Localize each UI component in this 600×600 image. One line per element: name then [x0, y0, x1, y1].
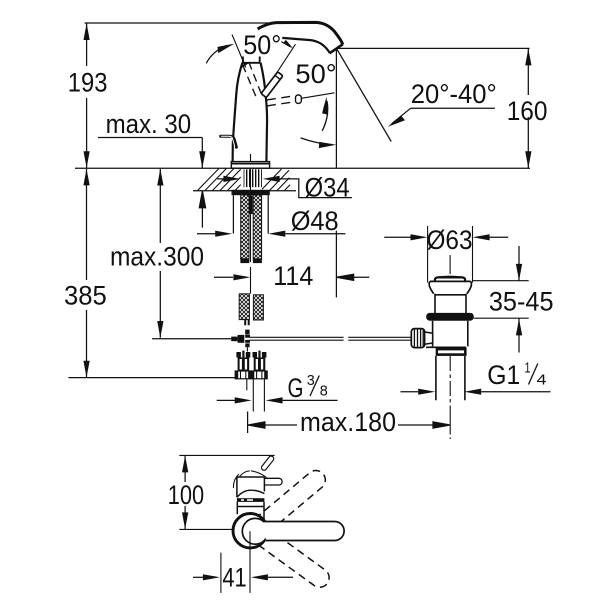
- svg-text:8: 8: [320, 383, 328, 400]
- dim max30 arrow down: [199, 151, 205, 168]
- svg-text:50°: 50°: [295, 59, 336, 89]
- dim 193 arrow bottom: [84, 151, 90, 168]
- neck top: [242, 57, 260, 64]
- dashed handle horizontal position: [267, 96, 296, 106]
- svg-text:35-45: 35-45: [489, 287, 554, 317]
- top view: hub circle: [242, 518, 268, 544]
- fitting left: [235, 351, 251, 379]
- dim max180 ext line: [247, 412, 249, 434]
- tee connector center piece: [245, 335, 250, 343]
- svg-text:41: 41: [222, 562, 246, 592]
- dim 160 arrow top: [525, 49, 531, 66]
- 50deg leader arrowhead: [282, 39, 294, 48]
- dim 160 arrow bottom: [525, 151, 531, 168]
- dim O48 arrows + leader: [197, 233, 215, 235]
- drain pop-up cap: [435, 277, 465, 281]
- top view: body below band: [237, 502, 264, 521]
- drain seal ring: [426, 313, 474, 321]
- drain upper body: [434, 294, 466, 313]
- tee connector stub down: [245, 343, 249, 347]
- left hose end line: [246, 379, 248, 391]
- hose right upper segment: [253, 195, 261, 259]
- deck bottom line: [193, 190, 296, 192]
- dim 41 arrows: [193, 576, 203, 578]
- dim max30 arrow up below deck: [199, 191, 205, 228]
- handle horizontal thin line: [301, 93, 334, 99]
- water stream diagonal: [337, 49, 392, 142]
- top view: dark band: [237, 498, 265, 502]
- top view: dim 100 ext top: [179, 454, 274, 456]
- svg-text:114: 114: [273, 261, 313, 291]
- dim G3/8 arrows: [217, 399, 235, 401]
- top view: dashed lever up: [255, 467, 329, 534]
- handle tilted ref line: [232, 35, 246, 68]
- spout outline top: [258, 22, 343, 44]
- dim 100 arrow top: [182, 456, 188, 473]
- fitting right: [251, 351, 267, 379]
- deck hatching: [198, 168, 291, 190]
- svg-text:193: 193: [68, 68, 108, 98]
- dim 385 vertical line: [86, 169, 88, 377]
- handle lever raised: [261, 72, 283, 98]
- top view: dim 100 ext bottom: [179, 528, 233, 530]
- dim max180 line + arrows: [248, 422, 297, 428]
- mounting cylinder edges: [233, 195, 268, 233]
- dim 193 vertical line: [86, 23, 88, 168]
- dim 35-45 line + arrows: [518, 246, 520, 281]
- tee connector left nipple: [231, 337, 237, 342]
- top view: side knob right: [264, 478, 282, 485]
- hose left upper segment: [241, 195, 249, 259]
- pull rod between hoses: [249, 196, 253, 215]
- faucet body right side: [261, 63, 267, 162]
- hose right lower segment: [253, 295, 263, 320]
- dim 385 arrow bottom: [83, 361, 89, 378]
- spout underside: [282, 38, 329, 53]
- svg-text:50°: 50°: [243, 30, 281, 60]
- dim max30 drop line: [201, 138, 203, 169]
- fraction slash G3/8: [310, 376, 319, 397]
- svg-text:max.180: max.180: [300, 407, 396, 437]
- faucet body left side: [233, 63, 243, 162]
- dim max30 leader underline: [98, 137, 202, 139]
- drain nut flange: [426, 346, 466, 348]
- top view: rosette circle: [233, 514, 267, 548]
- right connection tube G3/8: [253, 379, 264, 412]
- tee connector body: [238, 335, 245, 343]
- top view: spout tip oval: [260, 455, 274, 471]
- top view: wave band: [237, 490, 265, 497]
- drain lower body: [433, 321, 468, 347]
- svg-text:1: 1: [525, 359, 531, 376]
- dim max300 vertical line: [159, 169, 161, 338]
- svg-text:Ø34: Ø34: [305, 172, 350, 202]
- tailpipe centerline: [449, 356, 451, 439]
- dim 100 arrow bottom: [182, 512, 188, 529]
- pop-up rod line left: [152, 338, 231, 340]
- dim O63 ext lines: [428, 226, 473, 283]
- base flange: [231, 162, 269, 169]
- dim 35-45 ext lines: [473, 281, 529, 319]
- dim 114 line + arrows: [214, 276, 233, 278]
- dashed handle cap: [241, 63, 248, 67]
- dim 20-40 underline + leader arrow: [392, 108, 495, 124]
- top view: body box: [237, 477, 265, 497]
- dim max300 arrow top: [157, 169, 163, 186]
- handle horizontal cap: [296, 95, 302, 103]
- rod stub below left hose: [245, 320, 249, 326]
- svg-text:max.300: max.300: [110, 242, 204, 272]
- hose feet dark: [240, 258, 249, 263]
- svg-text:G1: G1: [487, 360, 520, 390]
- top view: sketch arcs: [233, 471, 266, 488]
- pull-rod lever on left: [221, 136, 237, 147]
- top view: dashed lever down: [256, 528, 333, 591]
- svg-text:max. 30: max. 30: [106, 109, 192, 139]
- 50deg arc arrow left: [206, 45, 227, 63]
- dim 41 ext line left: [220, 553, 222, 593]
- dim 100 vertical line: [184, 455, 186, 529]
- svg-text:385: 385: [64, 281, 107, 311]
- svg-text:160: 160: [507, 96, 548, 126]
- top view: centerline below: [249, 531, 251, 593]
- 50deg arc arrow up: [322, 101, 328, 131]
- spout outlet face: [330, 44, 343, 53]
- dim 160 vertical line: [527, 48, 529, 168]
- dim O63 arrows: [384, 236, 411, 238]
- mounting washer: [232, 190, 270, 195]
- svg-text:4: 4: [537, 371, 547, 388]
- svg-text:G: G: [288, 373, 304, 403]
- deck top line: [75, 167, 530, 169]
- dim 193 arrow top: [84, 23, 90, 40]
- faucet handle axis extension line: [265, 44, 296, 91]
- svg-text:Ø48: Ø48: [291, 206, 339, 236]
- knurled knob: [411, 329, 424, 348]
- 50deg leader from text: [281, 42, 290, 47]
- top reference line L1: [85, 22, 273, 24]
- svg-text:Ø63: Ø63: [427, 225, 473, 255]
- dim max300 arrow bottom: [157, 321, 163, 338]
- faucet centerline: [250, 154, 252, 294]
- drain centerline top: [449, 255, 451, 274]
- 20-40 arc arrow right: [301, 138, 332, 145]
- ext line 385 bottom: [68, 377, 235, 379]
- knob connector: [425, 332, 433, 344]
- dim 385 arrow top: [83, 169, 89, 186]
- dim O34 arrows + leader: [217, 178, 224, 180]
- tee connector stub up: [245, 330, 249, 335]
- dashed handle vertical position: [243, 62, 263, 100]
- fraction slash G1 1/4: [529, 364, 538, 385]
- hose left lower segment: [239, 294, 249, 320]
- svg-text:20°-40°: 20°-40°: [411, 79, 497, 109]
- projection line from spout outlet: [335, 49, 337, 297]
- drain rim: [430, 280, 471, 282]
- dim G1 1/4 arrows: [401, 391, 419, 393]
- shank thread in deck hole: [244, 169, 262, 187]
- pop-up rod double line to drain: [250, 337, 411, 340]
- svg-text:100: 100: [168, 480, 204, 510]
- drain tailpipe: [436, 356, 465, 400]
- spout outlet level line L2: [338, 47, 530, 49]
- top view: solid lever bar: [263, 522, 344, 541]
